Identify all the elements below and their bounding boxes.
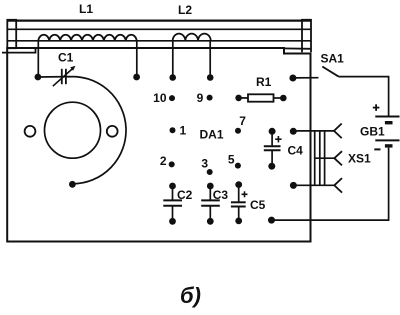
connector XS1 contact 1 [334, 124, 342, 139]
wire L2 left lead [172, 41, 174, 77]
battery GB1 minus [374, 148, 380, 150]
connector XS1 contact 3 [334, 178, 342, 193]
inductor L1 [38, 35, 136, 41]
svg-text:R1: R1 [256, 75, 272, 89]
svg-text:L2: L2 [178, 3, 192, 17]
connector XS1 contact 2 [315, 157, 335, 159]
svg-text:C5: C5 [250, 198, 266, 212]
wire L2 right lead [209, 41, 211, 77]
mounting hole right [107, 126, 118, 137]
node bottom wire [268, 217, 275, 224]
board left mounting tab [2, 48, 36, 53]
capacitor C1 arrow [53, 68, 73, 86]
node L2 right [207, 74, 214, 81]
resistor R1 [235, 95, 242, 102]
battery GB1 cell 2 [375, 139, 399, 141]
svg-text:5: 5 [228, 153, 235, 167]
wire XS1 bottom [293, 184, 334, 186]
ferrite rod line middle [7, 28, 310, 30]
wire C1 [38, 76, 70, 78]
left rod bracket [7, 20, 16, 48]
battery GB1 cell 1 [375, 116, 399, 118]
node SA1 [289, 75, 296, 82]
pin 1 [170, 127, 176, 133]
svg-text:б): б) [180, 283, 201, 308]
svg-text:C3: C3 [213, 188, 229, 202]
svg-text:C4: C4 [288, 143, 304, 157]
board right mounting tab [283, 47, 311, 49]
svg-text:DA1: DA1 [200, 128, 224, 142]
capacitor C1 plates [61, 69, 63, 84]
speaker hole circle [45, 102, 101, 158]
wire battery to bottom [272, 148, 389, 221]
svg-text:L1: L1 [79, 2, 93, 16]
node arc end [69, 181, 76, 188]
node L1 left / C1 [35, 74, 42, 81]
svg-text:C2: C2 [177, 188, 193, 202]
svg-text:10: 10 [153, 91, 167, 105]
capacitor C3 [207, 183, 214, 190]
svg-text:7: 7 [239, 114, 246, 128]
pin 7 [235, 128, 241, 134]
svg-text:GB1: GB1 [360, 125, 385, 139]
pin 3 [207, 169, 213, 175]
wire L1 left lead [37, 41, 39, 77]
node L1 right [133, 74, 140, 81]
battery GB1 plus [373, 107, 380, 109]
pin 2 [169, 161, 175, 167]
switch SA1 lever [322, 67, 339, 77]
svg-text:XS1: XS1 [348, 152, 371, 166]
wire SA1 to battery [339, 77, 389, 117]
svg-text:9: 9 [197, 91, 204, 105]
wire SA1 left [293, 77, 319, 79]
capacitor C5 [235, 181, 242, 188]
pin 9 [207, 95, 213, 101]
right rod bracket [302, 20, 311, 52]
node XS1 top [290, 128, 297, 135]
svg-text:2: 2 [160, 154, 167, 168]
wire L1 right lead [136, 41, 138, 77]
svg-text:SA1: SA1 [321, 51, 345, 65]
mounting hole left [25, 126, 36, 137]
ferrite rod line bottom [7, 40, 310, 42]
svg-text:1: 1 [180, 124, 187, 138]
inductor L2 [173, 34, 211, 41]
capacitor C2 [169, 183, 176, 190]
node L2 left [169, 74, 176, 81]
rotor arc of C1 [68, 77, 126, 184]
board outline [7, 48, 310, 242]
connector XS1 bus [314, 131, 316, 186]
pin 10 [169, 95, 175, 101]
capacitor C4 [269, 128, 276, 135]
wire XS1 top [293, 130, 334, 132]
svg-text:3: 3 [201, 156, 208, 170]
pin 5 [235, 163, 241, 169]
svg-text:C1: C1 [58, 51, 74, 65]
ferrite rod line top [7, 20, 310, 22]
node XS1 bottom [290, 182, 297, 189]
